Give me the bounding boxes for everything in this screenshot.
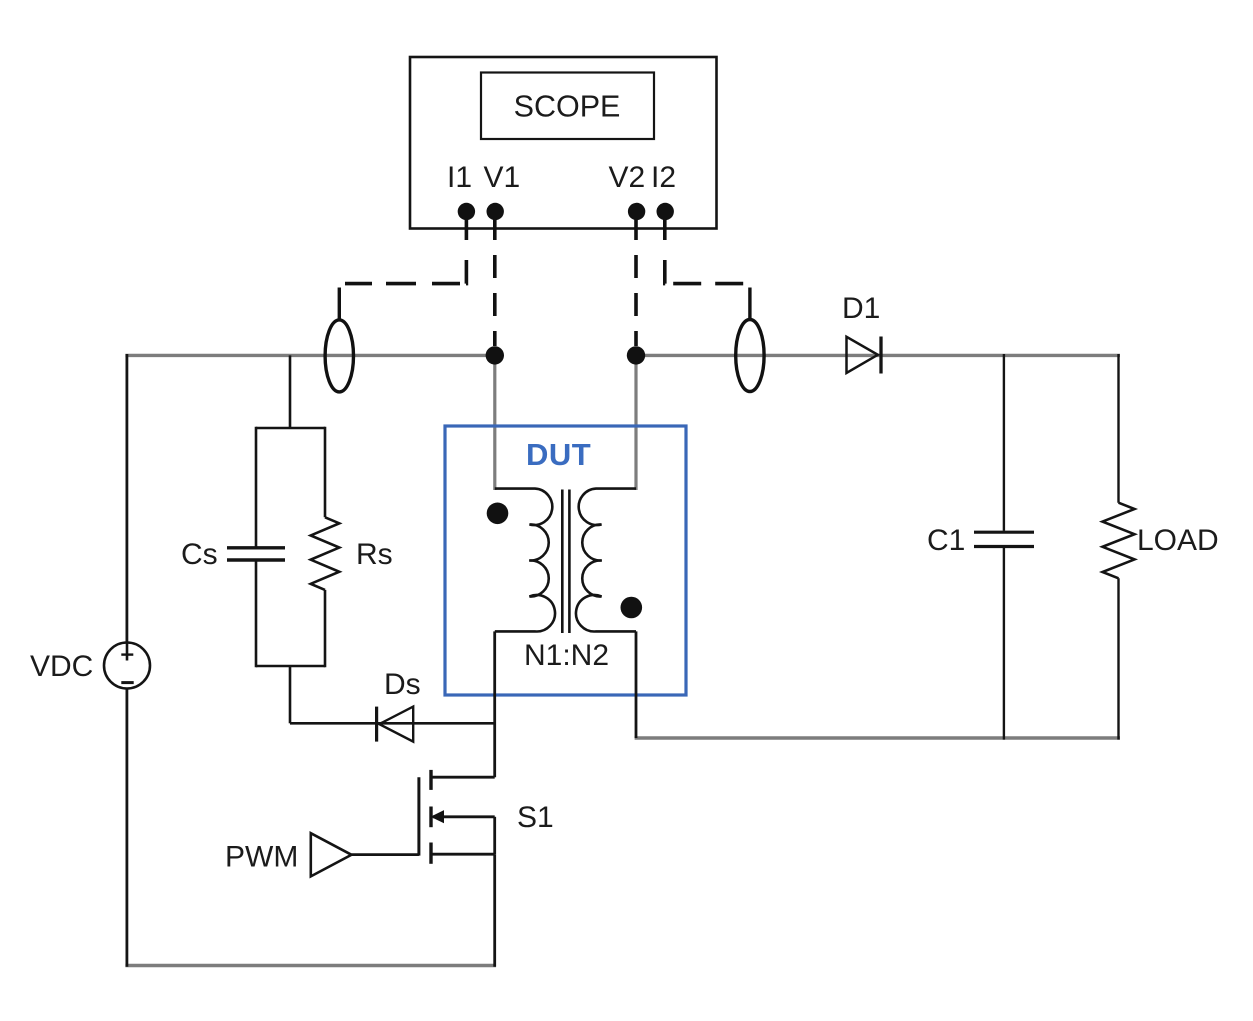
DUT box [445,426,686,695]
dashed probe lead V2 [634,219,638,346]
wire: Cs branch lower [255,561,258,667]
terminal I2 [657,203,674,220]
wire: snubber bottom stub [289,666,292,723]
svg-text:Rs: Rs [356,538,393,571]
wire: LOAD branch lower [1117,578,1119,739]
capacitor C1 bottom plate [974,545,1034,548]
diode D1 triangle [847,337,878,373]
terminal V1 [487,203,504,220]
capacitor Cs top plate [227,546,285,549]
transformer primary phase dot [487,503,509,525]
transistor S1 body bar [429,807,432,828]
terminal I1 [458,203,475,220]
svg-text:PWM: PWM [225,841,298,874]
diode Ds cathode bar [375,707,378,742]
transistor S1 drain bar [429,770,432,790]
wire: Rs branch lower [324,590,327,667]
wire: C1 branch upper [1003,354,1005,531]
resistor Rs (zigzag) [311,517,340,590]
wire: primary winding down to switch node [493,631,496,777]
wire: secondary bottom rail [635,736,1120,739]
svg-text:VDC: VDC [30,650,93,683]
wire: snubber box top [256,427,325,430]
wire: left rail lower (VDC to bottom rail) [126,688,129,967]
capacitor Cs bottom plate [227,558,285,561]
svg-text:I1: I1 [447,161,472,194]
transistor S1 body arrowhead [431,810,445,823]
svg-text:SCOPE: SCOPE [514,90,621,124]
wire: PWM to gate [352,853,419,856]
voltage source VDC (circle) [104,643,150,689]
current probe I1 (ellipse) [325,320,353,392]
wire: secondary winding down to secondary rail [635,631,638,738]
diode D1 cathode bar [879,337,882,374]
transformer core line left [561,490,564,634]
transformer secondary phase dot [621,597,643,619]
wire: MOSFET drain horizontal [431,776,495,779]
wire: MOSFET source horizontal [431,853,495,856]
svg-text:C1: C1 [927,524,965,557]
wire: top rail left (VDC+ to node V1) [125,354,494,357]
wire: snubber top stub [289,355,292,428]
svg-text:LOAD: LOAD [1137,524,1219,557]
wire: snubber box bottom [256,665,325,668]
svg-text:V2: V2 [609,161,646,194]
node V1 (junction dot) [486,346,504,364]
node V2 (junction dot) [627,346,645,364]
svg-text:DUT: DUT [526,437,591,472]
scope display box [481,73,654,140]
transformer T1 primary winding [495,489,555,632]
wire: source down to bottom rail [493,854,496,967]
VDC plus stub [126,644,129,661]
wire: Rs branch upper [324,427,327,518]
transistor S1 body arrow wire [433,815,495,818]
dashed probe lead V1 [493,219,497,346]
PWM driver triangle [311,833,352,876]
terminal V2 [628,203,645,220]
VDC minus bar [121,681,133,684]
transformer T1 secondary winding [576,489,636,632]
wire: probe I1 stub [338,288,341,322]
current probe I2 (ellipse) [736,320,764,392]
svg-text:N1:N2: N1:N2 [524,639,609,672]
dashed probe lead I2 [665,219,746,284]
svg-text:D1: D1 [842,292,880,325]
transformer core line right [568,490,571,634]
wire: LOAD branch upper [1117,354,1119,503]
wire: node V1 down to transformer primary [493,355,496,490]
wire: body-source tie vertical [493,817,496,854]
wire: snubber to switch node (through Ds) [290,722,495,725]
wire: left rail upper (VDC to top rail) [126,354,129,644]
svg-text:Cs: Cs [181,538,218,571]
svg-text:Ds: Ds [384,668,421,701]
wire: Cs branch upper [255,427,258,547]
dashed probe lead I1 [345,219,466,284]
wire: C1 branch lower [1003,548,1005,740]
resistor LOAD (zigzag) [1103,503,1135,579]
diode Ds triangle [379,707,413,742]
capacitor C1 top plate [974,531,1034,534]
transistor S1 source bar [429,843,432,864]
wire: probe I2 stub [748,288,751,322]
svg-text:S1: S1 [517,801,554,834]
wire: top rail right (node V2 through D1 to output) [636,354,1120,357]
VDC plus crossbar [121,653,133,655]
wire: node V2 down to transformer secondary [634,355,637,490]
wire: primary bottom rail [125,964,496,967]
svg-text:I2: I2 [651,161,676,194]
svg-text:V1: V1 [484,161,521,194]
scope outer box [410,57,717,229]
transistor S1 gate line [417,777,420,855]
